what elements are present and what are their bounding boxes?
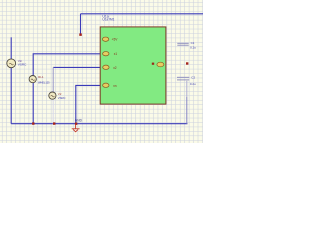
svg-text:0.2u: 0.2u (190, 82, 196, 86)
svg-text:+5V: +5V (112, 38, 119, 42)
wire stub down from top rail (80, 14, 82, 34)
capacitor C2 (177, 77, 189, 80)
svg-text:vn: vn (113, 84, 117, 88)
svg-text:C2: C2 (191, 76, 195, 80)
wire source V2 to pin x2 (53, 67, 100, 92)
capacitor C1 (177, 43, 188, 45)
svg-text:U1a?M1: U1a?M1 (102, 18, 114, 22)
wire below source Vin to ground rail (10, 68, 12, 124)
svg-text:C1: C1 (191, 41, 195, 45)
wire bottom ground rail (11, 123, 187, 125)
source RL1 (29, 76, 36, 83)
junction dot node A (32, 122, 34, 124)
dangling wire end marker above C2 (186, 62, 188, 64)
pin 4 vn (103, 83, 117, 88)
wire above source Vin (10, 37, 12, 59)
wire source V2 down to ground rail (52, 99, 54, 124)
svg-text:VSRC: VSRC (18, 62, 27, 66)
pin 2 x1 (103, 52, 118, 57)
junction dot node B (53, 122, 55, 124)
source V2 (49, 92, 56, 99)
pin 1 +5V (102, 37, 118, 42)
IC U1 body (100, 27, 166, 104)
svg-text:x2: x2 (113, 66, 117, 70)
wire source RL1 down to ground rail (32, 83, 34, 124)
wire source RL1 to pin x1 (33, 54, 100, 76)
voltage source Vin (7, 59, 16, 68)
svg-text:WHEL125: WHEL125 (38, 82, 50, 85)
wire pin vn to ground rail (76, 85, 100, 123)
wire capacitor C2 to ground rail (186, 81, 188, 124)
svg-text:RL1: RL1 (38, 75, 44, 79)
ground terminal (72, 124, 80, 132)
dangling wire end marker (79, 33, 82, 36)
svg-text:x1: x1 (114, 52, 118, 56)
svg-text:0.2u: 0.2u (190, 46, 196, 50)
svg-text:VSRC: VSRC (58, 96, 66, 100)
wire top supply rail (81, 13, 204, 15)
junction dot at ground tap (75, 123, 77, 125)
svg-text:GND: GND (75, 119, 83, 123)
pin 5 output on right side (152, 62, 164, 67)
pin 3 x2 (103, 65, 117, 70)
